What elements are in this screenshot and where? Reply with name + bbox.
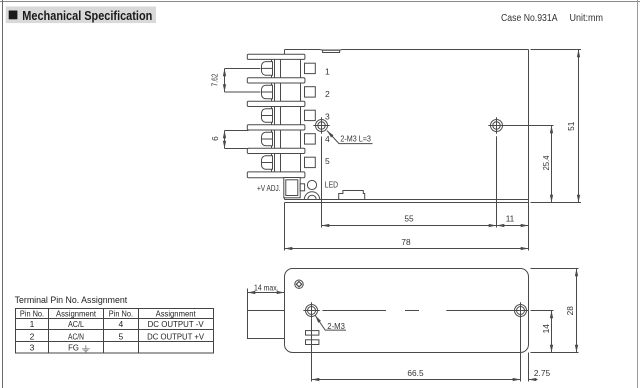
- leader 2-M3 (bottom view): [315, 315, 346, 330]
- svg-text:Pin No.: Pin No.: [109, 308, 133, 318]
- terminal block right edge: [300, 54, 302, 178]
- bottom tab: [339, 191, 365, 200]
- terminal screw 5: [262, 156, 273, 170]
- pin square 4: [305, 134, 316, 144]
- svg-text:6: 6: [210, 136, 220, 141]
- case left edge upper step: [284, 50, 286, 55]
- svg-text:78: 78: [401, 237, 411, 247]
- svg-text:1: 1: [30, 319, 35, 329]
- LED hole circle: [307, 180, 316, 189]
- case top tab: [320, 50, 342, 53]
- slot 1: [306, 331, 319, 336]
- dimension 55: [322, 136, 497, 227]
- page right border: [637, 0, 639, 388]
- terminal block inner line: [280, 56, 282, 176]
- svg-text:AC/N: AC/N: [68, 331, 84, 341]
- pin square 2: [305, 87, 316, 97]
- dimension 78: [285, 203, 529, 251]
- svg-text:LED: LED: [325, 179, 338, 189]
- dimension 28: [531, 269, 579, 353]
- svg-text:+V ADJ.: +V ADJ.: [257, 183, 281, 193]
- svg-text:51: 51: [566, 121, 576, 131]
- svg-text:DC OUTPUT +V: DC OUTPUT +V: [147, 331, 204, 341]
- page left border: [2, 0, 4, 388]
- dimension 14 max: [248, 289, 285, 311]
- svg-text:55: 55: [404, 213, 414, 223]
- svg-text:2: 2: [30, 331, 35, 341]
- terminal block protrusion (bottom view): [248, 311, 285, 339]
- dimension 6: [225, 131, 249, 149]
- terminal screw 4: [262, 132, 273, 146]
- table grid: [16, 309, 214, 354]
- terminal screw 1: [262, 62, 273, 76]
- dimension 7.62: [225, 69, 261, 93]
- potentiometer (+V ADJ): [284, 178, 305, 198]
- screw slot 2: [262, 91, 273, 93]
- center dashed line: [322, 310, 513, 312]
- svg-text:Unit:mm: Unit:mm: [570, 13, 604, 24]
- small screw hole top-left: [295, 280, 303, 288]
- svg-text:AC/L: AC/L: [68, 319, 84, 329]
- terminal screw 3: [262, 109, 273, 123]
- bottom edge arcs: [304, 192, 319, 200]
- svg-text:Assignment: Assignment: [156, 308, 197, 318]
- svg-text:DC OUTPUT -V: DC OUTPUT -V: [148, 319, 204, 329]
- svg-text:25.4: 25.4: [541, 155, 551, 170]
- separator bar 6: [247, 172, 305, 178]
- separator bar 2: [247, 78, 305, 83]
- svg-text:11: 11: [506, 213, 515, 223]
- table text: [20, 308, 205, 352]
- svg-text:4: 4: [325, 134, 330, 144]
- pin square 3: [305, 110, 316, 120]
- case left edge lower segment: [284, 177, 286, 199]
- right mounting hole (bottom view): [512, 302, 528, 318]
- screw body line b: [274, 56, 276, 176]
- slot 2: [306, 340, 319, 345]
- dimension 66.5: [312, 319, 521, 382]
- screw slot 3: [262, 115, 273, 117]
- case bottom edge inner: [285, 202, 529, 204]
- case top edge: [285, 49, 529, 51]
- svg-text:Case No.931A: Case No.931A: [501, 13, 558, 24]
- FG earth symbol: [82, 345, 90, 352]
- dimension 14 (right): [531, 311, 579, 353]
- header black square bullet: [9, 11, 18, 20]
- left mounting hole (top view): [313, 117, 329, 133]
- screw slot 1: [262, 67, 273, 69]
- right mounting hole (top view): [488, 117, 504, 133]
- svg-text:1: 1: [325, 67, 330, 77]
- svg-text:Assignment: Assignment: [56, 308, 97, 318]
- screw slot 4: [262, 138, 273, 140]
- separator bar 1: [247, 54, 305, 59]
- svg-text:3: 3: [325, 112, 330, 122]
- svg-text:2-M3: 2-M3: [327, 321, 345, 331]
- svg-text:2.75: 2.75: [534, 368, 551, 378]
- dimension 2.75: [529, 353, 538, 382]
- dimension 11: [497, 203, 529, 251]
- svg-text:7.62: 7.62: [209, 73, 219, 86]
- case bottom edge outer: [285, 199, 529, 201]
- svg-text:4: 4: [119, 319, 124, 329]
- pin square 5: [305, 157, 316, 167]
- separator bar 3: [247, 101, 305, 106]
- pin square 1: [305, 63, 316, 73]
- svg-text:2: 2: [325, 89, 330, 99]
- svg-text:Pin No.: Pin No.: [20, 308, 44, 318]
- svg-text:66.5: 66.5: [407, 368, 424, 378]
- svg-text:14: 14: [541, 324, 551, 334]
- separator bar 5: [247, 148, 305, 153]
- page top border: [0, 1, 640, 3]
- bottom view case outline: [285, 269, 529, 353]
- pin number labels: [325, 67, 330, 167]
- svg-text:5: 5: [325, 156, 330, 166]
- svg-text:FG: FG: [68, 343, 79, 353]
- screw body line a: [271, 56, 273, 176]
- header gray bar: [6, 7, 156, 24]
- svg-text:28: 28: [565, 306, 575, 316]
- leader 2-M3 L=3: [327, 131, 373, 144]
- svg-text:5: 5: [119, 331, 124, 341]
- terminal pin squares (top view): [305, 63, 316, 167]
- svg-text:Terminal Pin No. Assignment: Terminal Pin No. Assignment: [15, 295, 128, 305]
- svg-text:2-M3 L=3: 2-M3 L=3: [340, 133, 371, 143]
- dimension 51: [531, 50, 582, 203]
- terminal screw 2: [262, 85, 273, 99]
- svg-text:14 max.: 14 max.: [254, 282, 279, 292]
- separator bar 4: [247, 125, 305, 130]
- screw slot 5: [262, 162, 273, 164]
- svg-text:Mechanical Specification: Mechanical Specification: [22, 8, 152, 23]
- case right edge: [528, 50, 530, 203]
- terminal block separator bars: [247, 54, 305, 178]
- left mounting hole (bottom view): [303, 302, 319, 318]
- svg-text:3: 3: [30, 343, 35, 353]
- terminal screws: [262, 62, 273, 170]
- dimension 25.4: [504, 126, 553, 203]
